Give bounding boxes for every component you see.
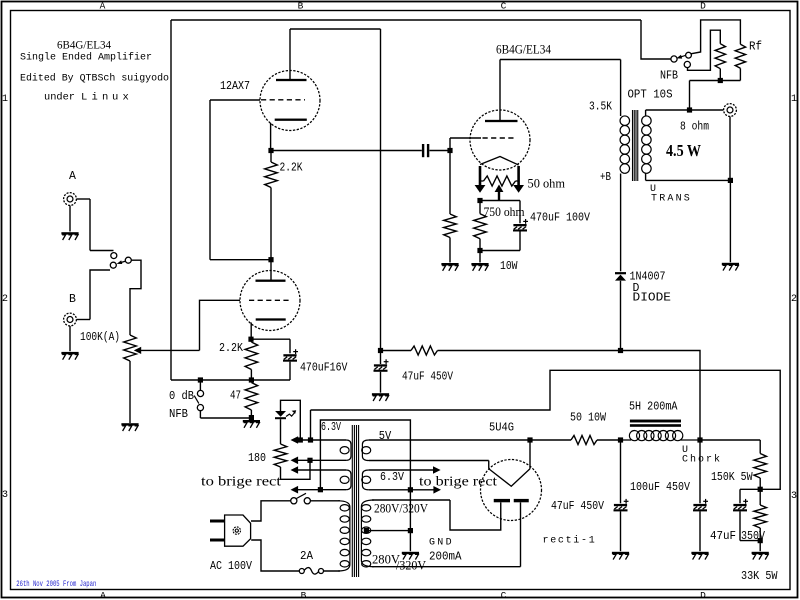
ground [752,552,769,560]
label GND [429,538,454,549]
label 280V/320V upper [374,502,428,516]
wire [210,99,260,101]
svg-text:6.3V: 6.3V [321,421,341,434]
svg-text:4.5 W: 4.5 W [666,141,701,160]
label 5H 200mA [629,401,678,414]
wire [690,80,741,82]
wire [740,540,760,542]
tube 12AX7 upper envelope [260,71,320,131]
svg-text:/320V: /320V [396,559,426,573]
node [249,415,254,420]
svg-text:D: D [700,590,706,600]
node [618,437,623,442]
resistor grid leak [444,214,457,238]
tube 12AX7 lower envelope [240,271,300,331]
wire [89,199,91,251]
svg-text:A: A [100,590,106,600]
wire [320,420,410,490]
tube 5U4G plate 2 [514,499,529,502]
wire [251,338,290,340]
transformer OPT core [633,110,638,181]
frame row label 3 right [791,491,797,502]
tube 6B4G grid [483,137,517,139]
wire [500,59,621,61]
wire [739,68,741,80]
wire [488,461,490,469]
svg-text:D: D [700,1,706,12]
wire [69,326,71,351]
svg-text:50 ohm: 50 ohm [528,176,566,191]
label U TRANS [650,184,692,205]
svg-text:3: 3 [2,490,8,501]
tube 12AX7 upper plate [276,79,307,81]
tube 12AX7 lower plate [256,280,286,282]
label 2.2K upper [280,162,303,175]
wire [499,60,501,121]
resistor 2.2K cathode [245,342,258,370]
wire [620,281,622,351]
wire [759,541,761,552]
label /320V lower [396,559,426,573]
wire [199,380,201,390]
wire [290,28,381,30]
svg-text:Rf: Rf [749,41,762,54]
switch NFB2 contact down [684,61,690,67]
label 4.5 W [666,141,701,160]
label 50 10W [570,412,606,425]
resistor 750 ohm [474,214,487,239]
wire [480,200,520,202]
svg-text:A: A [100,1,106,12]
resistor 2.2K upper [265,162,278,188]
wire 5V bottom [369,460,489,462]
wire [729,117,731,179]
svg-text:10W: 10W [500,260,518,273]
wire [77,319,91,321]
title under Linux [44,92,129,104]
wire [250,323,252,340]
transformer PT primary winding [338,501,350,571]
svg-text:26th Nov 2005 From Japan: 26th Nov 2005 From Japan [16,580,96,589]
resistor Rf [735,44,745,68]
label 0 dB [169,390,194,403]
svg-text:recti-1: recti-1 [543,535,597,547]
wire [597,439,621,441]
wire [719,69,721,81]
svg-text:Single Ended Amplifier: Single Ended Amplifier [20,52,152,64]
node A label [69,170,76,183]
svg-text:47uF 450V: 47uF 450V [402,371,453,384]
date note [16,580,96,589]
wire [324,570,341,572]
label 33K 5W [741,570,778,583]
label 6.3V right [380,471,404,484]
svg-text:12AX7: 12AX7 [220,80,250,93]
svg-text:B: B [298,1,304,12]
wire [430,150,451,152]
label 2A [300,550,313,563]
label recti-1 [543,535,597,547]
wire [621,439,632,441]
wire [620,442,622,503]
wire [739,489,741,503]
wire [281,460,311,479]
wire [479,253,481,263]
wire [520,502,522,566]
label +B [600,171,611,184]
node [618,348,623,353]
wire [250,339,252,380]
label NFB [169,408,188,421]
resistor 150K 5W [754,454,767,479]
node [408,487,413,492]
wire [200,300,241,350]
svg-text:to brige rect: to brige rect [201,475,281,490]
wire [759,489,761,540]
svg-text:A: A [69,170,76,183]
wire [519,201,521,224]
tube 5U4G envelope [481,460,542,521]
node [758,487,763,492]
resistor 33K 5W [754,505,767,528]
svg-text:200mA: 200mA [429,551,462,564]
wire 6.3V top to bridge [369,466,441,474]
label 8 ohm [680,121,709,134]
label 47 [230,389,241,402]
label 50 ohm [528,176,566,191]
wire [171,19,641,21]
filament lead right to bridge [513,166,524,193]
svg-text:750 ohm: 750 ohm [484,204,525,219]
potentiometer 50 ohm [484,176,516,186]
label 1N4007 [630,271,666,284]
node [687,107,692,112]
resistor B+ dropper [411,346,438,355]
capacitor 47uF 450V second [614,499,629,512]
wire [449,238,451,263]
ground [61,232,78,240]
node [697,437,702,442]
node cathode junction [268,148,273,153]
frame row label 2 left [2,294,8,305]
winding second left loop [340,470,351,490]
label 47uF 350V [710,530,765,543]
node [728,178,733,183]
ground [121,423,138,431]
label NFB top [660,70,678,83]
wire [69,206,71,232]
frame row label 1 right [791,94,797,105]
frame column label A bottom [100,590,106,600]
wire [530,439,571,441]
switch NFB2 contact up [686,52,692,58]
capacitor 100uF 450V [693,499,708,512]
ground [402,552,419,560]
wire [90,270,110,320]
svg-text:1: 1 [2,94,8,105]
svg-text:Chork: Chork [682,454,722,466]
wire [681,439,701,441]
node [307,458,312,463]
svg-text:n: n [102,92,108,104]
svg-text:2.2K: 2.2K [280,162,303,175]
svg-text:100K(A): 100K(A) [80,331,120,344]
svg-text:5H 200mA: 5H 200mA [629,401,678,414]
wire [409,490,411,531]
wire [620,60,622,117]
filament lead left to bridge [475,166,486,193]
jack A [64,193,77,206]
wire [250,410,252,418]
svg-text:3: 3 [791,491,797,502]
tube 6B4G filament [480,157,519,166]
svg-text:3.5K: 3.5K [589,101,612,114]
svg-text:470uF16V: 470uF16V [300,362,348,375]
tube 12AX7 lower cathode [256,318,286,320]
wire [170,20,172,380]
svg-text:+B: +B [600,171,611,184]
wire [280,419,282,444]
svg-text:47uF 450V: 47uF 450V [551,500,604,513]
svg-text:DIODE: DIODE [633,292,672,305]
svg-text:5V: 5V [379,430,392,443]
node [477,198,482,203]
ground [691,552,708,560]
wire [646,179,731,181]
svg-text:to brige rect: to brige rect [419,475,497,490]
wire [688,30,721,70]
wire [380,29,382,351]
wire [699,442,701,503]
frame column label D top [700,1,706,12]
svg-text:6B4G/EL34: 6B4G/EL34 [57,40,111,52]
svg-text:L: L [81,92,87,104]
wire [310,410,312,440]
winding 6.3V left lead [291,436,347,444]
plug prong upper [210,520,225,523]
svg-text:8 ohm: 8 ohm [680,121,709,134]
svg-text:6B4G/EL34: 6B4G/EL34 [496,42,551,57]
svg-text:TRANS: TRANS [651,194,692,205]
frame column label C bottom [501,590,507,600]
svg-text:47uF: 47uF [710,530,736,543]
node [408,528,413,533]
wire [289,339,291,353]
wire 5V top [369,439,530,441]
label 100K(A) [80,331,120,344]
wire [366,530,410,532]
svg-text:C: C [501,590,507,600]
svg-text:i: i [92,92,98,104]
resistor 180 [274,444,287,467]
label DIODE [633,292,672,305]
ground [441,263,458,271]
switch NFB lever [194,396,199,404]
node [527,437,532,442]
label AC 100V [210,560,252,573]
wire [199,411,201,418]
transformer OPT primary winding [620,116,630,173]
label to brige rect right [419,475,497,490]
wire [251,540,299,571]
svg-text:100uF 450V: 100uF 450V [630,481,690,494]
switch SW1 contact a [111,253,117,259]
frame column label D bottom [700,590,706,600]
label 5V [379,430,392,443]
capacitor 470uF16V [283,349,298,362]
wire [700,439,760,441]
potentiometer 100K(A) [124,335,137,361]
label D [633,282,640,295]
label 6B4G/EL34 tube [496,42,551,57]
title Single Ended Amplifier [20,52,152,64]
wire [620,511,622,551]
wire [289,29,291,79]
wire [270,153,272,260]
label 750 ohm [484,204,525,219]
node B label [69,293,76,306]
node [718,78,723,83]
ground [372,393,389,401]
jack B [64,313,77,326]
winding second left bottom lead [291,486,347,494]
frame column label B top [298,1,304,12]
wire [759,440,761,489]
switch NFB contact lower [197,405,203,411]
wire 6.3V bottom to bridge [369,486,441,494]
frame row label 2 right [791,294,797,305]
wire [129,361,131,423]
svg-text:OPT 10S: OPT 10S [628,89,673,102]
pot wiper arrow [134,347,200,354]
choke 5H winding [629,431,682,441]
title 6B4G/EL34 [57,40,111,52]
svg-text:NFB: NFB [660,70,678,83]
svg-text:1: 1 [791,94,797,105]
capacitor 47uF 350V [733,499,748,512]
node [198,377,203,382]
label to brige rect left [201,475,281,490]
wire [209,100,211,260]
switch NFB2 common [671,56,677,62]
wire [645,174,647,181]
label 12AX7 [220,80,250,93]
svg-text:x: x [123,92,129,104]
node [378,348,383,353]
wire [646,109,724,111]
resistor 50 10W [571,436,597,445]
wire [77,198,91,200]
switch SW1 common [125,257,131,263]
wire [90,250,114,252]
label 180 [248,452,266,465]
label 47uF 450V first [402,371,453,384]
title Edited By QTBSch suigyodo [20,73,169,85]
jack output [724,104,737,117]
choke core bars [630,420,681,427]
winding second left top lead [291,466,347,474]
winding 5V loop [362,440,371,461]
node [758,538,763,543]
svg-text:33K 5W: 33K 5W [741,570,778,583]
frame column label C top [501,1,507,12]
frame row label 1 left [2,94,8,105]
wire [130,260,141,335]
wire [210,259,271,261]
svg-text:280V/320V: 280V/320V [374,502,428,516]
transformer OPT secondary winding [642,116,652,173]
switch NFB contact upper [197,390,203,396]
svg-text:C: C [501,1,507,12]
transformer PT core [352,425,358,577]
wire [450,137,481,139]
wire [621,351,701,438]
wire [409,531,411,552]
wire [200,417,251,419]
frame column label A top [100,1,106,12]
wire [438,350,621,352]
svg-text:5U4G: 5U4G [489,422,514,435]
label 47uF 450V recti [551,500,604,513]
node center tap [364,528,369,533]
wire [729,180,731,262]
frame row label 3 left [2,490,8,501]
wire [450,500,501,530]
label 3.5K [589,101,612,114]
node [249,377,254,382]
svg-text:Edited By QTBSch suigyodo: Edited By QTBSch suigyodo [20,73,169,85]
wire HT bottom [372,566,521,568]
switch SW1 contact b [110,262,116,268]
wire [281,400,301,440]
plug AC [225,515,251,546]
label 470uF 100V [530,212,590,225]
wire HT top [372,499,450,501]
ground [61,352,78,360]
switch NFB2 lever [676,55,686,59]
svg-text:AC 100V: AC 100V [210,560,252,573]
capacitor coupling [422,144,429,157]
wire [251,501,291,521]
svg-text:0 dB: 0 dB [169,390,194,403]
label 10W [500,260,518,273]
wire [641,20,671,59]
wire [529,440,531,469]
winding 6.3V left bottom lead [291,457,347,465]
svg-text:2: 2 [2,294,8,305]
ground [471,263,488,271]
node SRPP junction [268,257,273,262]
svg-text:50 10W: 50 10W [570,412,606,425]
wire [699,511,701,551]
diode 1N4007 [615,272,626,281]
tube 5U4G plate 1 [494,499,510,502]
wire [449,138,451,214]
svg-text:GND: GND [429,538,454,549]
wire [739,511,741,540]
ground [612,552,629,560]
node lower cathode junction [248,337,253,342]
wire [310,500,340,502]
tube 6B4G plate [485,120,518,122]
wire [380,353,382,393]
plug prong lower [210,539,225,542]
tube 12AX7 upper grid [261,99,305,101]
wire [740,488,760,490]
ground [243,420,260,428]
wire [691,20,741,54]
switch power [291,493,311,504]
